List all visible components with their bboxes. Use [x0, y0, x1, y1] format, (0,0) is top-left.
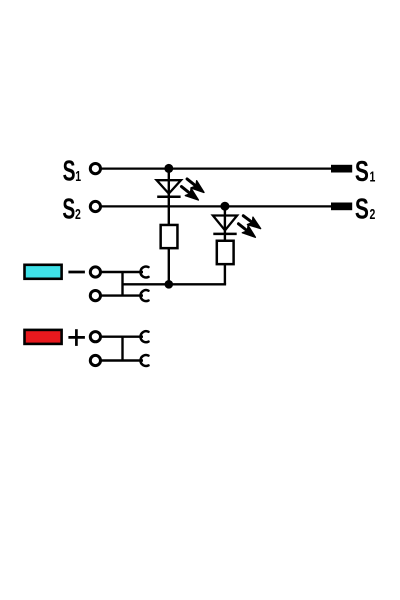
terminal circle plus row2	[90, 355, 100, 365]
wire minus row2	[96, 294, 143, 296]
marker red (plus potential)	[25, 330, 62, 344]
LED D2 cathode bar	[213, 233, 236, 236]
resistor R1	[161, 225, 178, 248]
terminal circle plus row1	[90, 332, 100, 342]
node junction dot S1/LED1	[164, 164, 173, 173]
wire S1 horizontal	[96, 167, 340, 169]
svg-text:2: 2	[75, 205, 81, 222]
LED D1 emission arrow upper	[184, 175, 207, 196]
LED D2 emission arrow upper	[241, 212, 264, 232]
blade terminal S1 right	[331, 165, 352, 173]
resistor R2	[217, 241, 234, 264]
blade terminal S2 right	[331, 203, 352, 211]
wire minus cross bar	[121, 272, 123, 296]
LED D1 cathode bar	[157, 195, 180, 198]
node junction dot S2/LED2	[220, 202, 229, 211]
plus sign	[68, 329, 85, 346]
svg-text:S: S	[63, 156, 76, 188]
wire resistor R1 to bus	[168, 248, 170, 284]
label S2 left	[62, 194, 80, 226]
terminal circle S2 left	[90, 201, 100, 211]
wire S2 horizontal	[96, 205, 340, 207]
minus sign	[68, 271, 85, 274]
label S1 left	[63, 156, 81, 188]
wire resistor R2 to bus	[224, 264, 226, 284]
wire plus row2	[96, 359, 143, 361]
svg-text:1: 1	[75, 167, 81, 184]
clamp contact plus row2	[141, 355, 149, 366]
wire negative bus horizontal	[123, 283, 227, 285]
marker cyan (minus potential)	[25, 265, 62, 279]
svg-text:S: S	[62, 194, 75, 226]
label S1 right	[355, 156, 375, 188]
node junction dot bus	[165, 280, 174, 289]
wire plus row1	[96, 336, 143, 338]
LED D1 triangle	[157, 180, 181, 193]
terminal circle minus row2	[90, 291, 100, 301]
wire minus row1	[96, 271, 143, 273]
clamp contact minus row2	[141, 290, 149, 301]
terminal circle S1 left	[90, 164, 100, 174]
svg-text:S: S	[355, 156, 369, 188]
wire LED2 vertical	[224, 206, 226, 241]
LED D2 emission arrow lower	[236, 220, 259, 241]
LED D2 triangle	[213, 216, 237, 231]
LED D1 emission arrow lower	[179, 183, 202, 204]
terminal circle minus row1	[90, 267, 100, 277]
svg-text:1: 1	[370, 167, 376, 184]
clamp contact minus row1	[141, 267, 149, 278]
wire LED1 vertical	[168, 169, 170, 225]
clamp contact plus row1	[141, 331, 149, 342]
label S2 right	[355, 193, 375, 225]
svg-text:S: S	[355, 193, 369, 225]
svg-text:2: 2	[370, 205, 376, 222]
wire plus cross bar	[121, 337, 123, 361]
